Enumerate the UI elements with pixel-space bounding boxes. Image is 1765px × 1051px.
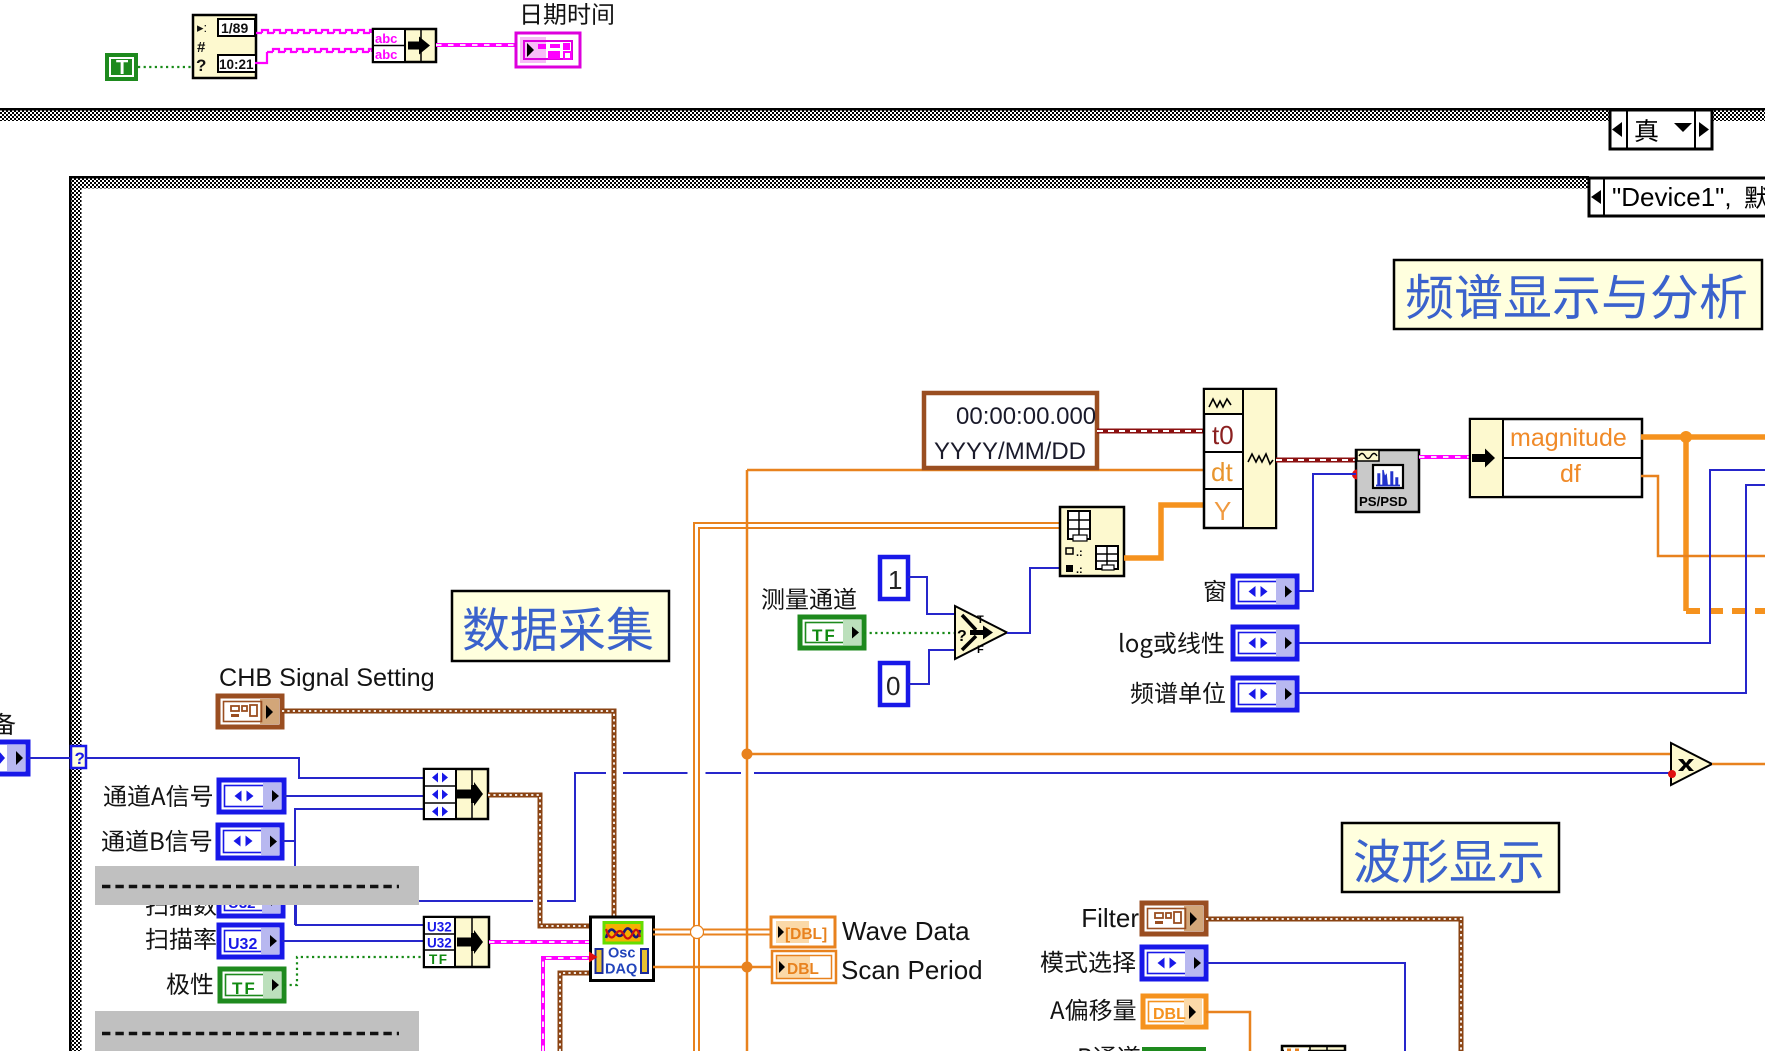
divider bar (upper) [95,866,419,905]
svg-text:TF: TF [429,952,449,967]
svg-text:dt: dt [1211,457,1233,487]
control 扫描数 (hidden by divider) [219,884,283,916]
partial label 设备 [0,713,15,735]
svg-text:DBL: DBL [1153,1006,1186,1023]
control 窗 [1233,576,1297,607]
enum control Filter [1142,903,1206,934]
case selector 真 [1610,110,1712,149]
svg-text:10:21: 10:21 [219,57,254,72]
wire scan period trunk vertical [746,470,749,1051]
wire 通道A信号 to interleave [284,795,424,797]
svg-text:YYYY/MM/DD: YYYY/MM/DD [934,438,1086,465]
svg-text:abc: abc [375,31,397,46]
svg-text:▸:: ▸: [197,20,207,35]
wire 极性 to bundle [284,957,424,985]
label 窗 [1205,580,1225,602]
svg-text:t0: t0 [1212,420,1234,450]
label CHB Signal Setting [219,664,435,692]
control 测量通道 TF [800,617,864,648]
svg-text:Scan Period: Scan Period [841,955,983,985]
label Scan Period [841,955,983,985]
svg-text:"Device1",: "Device1", [1612,182,1739,212]
wire OscDAQ wave data (double orange) [653,930,771,935]
inner structure top border [69,176,1589,189]
wire to multiply (lower blue) [295,771,1669,904]
svg-text:TF: TF [232,979,257,998]
tunnel ? on border [71,746,86,768]
node Format Date/Time String [193,15,256,78]
svg-text:df: df [1560,460,1581,488]
comment box 数据采集 [452,591,669,661]
label 日期时间 [523,3,613,25]
junction scan period [742,962,753,973]
wire string time to concatenate [255,49,372,63]
svg-text:[DBL]: [DBL] [785,926,827,943]
wire magnitude branch dashed right [1686,608,1765,614]
svg-text:?: ? [196,56,206,75]
wire brown from below to OscDAQ [560,973,591,1051]
svg-text:Osc: Osc [608,946,635,962]
indicator Wave Data [DBL] [771,917,835,947]
svg-text:DBL: DBL [787,961,819,978]
divider bar (lower) [95,1011,419,1051]
svg-text:Y: Y [1214,496,1231,526]
wire trunk to multiply [747,753,1671,756]
control 频谱单位 [1233,678,1297,710]
svg-text:TF: TF [812,626,837,645]
wire magnitude branch down [1683,437,1689,611]
wire magenta from below to OscDAQ [543,958,591,1051]
label Wave Data [842,916,970,946]
svg-text:CHB Signal Setting: CHB Signal Setting [219,664,435,692]
case selector label Device1 [1612,182,1765,212]
svg-text:U32: U32 [228,936,257,953]
svg-text:PS/PSD: PS/PSD [1359,494,1407,509]
node build waveform [1204,389,1276,528]
wire OscDAQ scan period [653,966,771,969]
svg-text:.:: .: [1076,564,1083,576]
wire tunnel to interleave node [86,758,424,778]
svg-text:.:: .: [1076,547,1083,559]
label A偏移量 [1050,999,1135,1021]
control 扫描率 U32 [219,925,282,957]
svg-text:U32: U32 [427,936,452,951]
wire 扫描数 to bundle [283,900,424,925]
node index array [1060,507,1124,576]
constant 1 [880,557,908,599]
wire df out [1641,476,1765,556]
svg-text:1: 1 [888,565,902,595]
wire CHB enum to OscDAQ [282,711,614,918]
node concatenate strings [373,29,436,62]
control log或线性 [1233,627,1297,659]
subVI OscDAQ [589,917,654,981]
svg-text:U32: U32 [427,920,452,935]
wire build waveform to PS/PSD [1276,458,1356,463]
wire channel B branch down [294,841,296,925]
label 模式选择 [1041,951,1136,973]
wire timestamp to t0 [1097,429,1204,434]
node bundle [424,917,489,967]
label 极性 [167,973,213,995]
wire trunk to dt [747,469,1204,472]
label 扫描数 (hidden by divider) [146,894,216,916]
node PS/PSD [1352,450,1419,512]
wire 设备 to tunnel [28,757,71,759]
wire magnitude out (thick orange) [1641,434,1765,440]
wire A偏移量 down [1206,1012,1250,1051]
wire waveform array vertical (double orange) [694,523,1060,1051]
wire 频谱单位 out [1297,485,1765,693]
label 测量通道 [762,588,856,610]
string indicator 日期时间 [516,33,580,67]
enum constant CHB Signal Setting [218,696,282,727]
svg-text:Filter: Filter [1081,903,1139,933]
wire boolean T to Format Date/Time [138,66,193,68]
label 通道A信号 [104,785,212,807]
svg-text:T: T [977,614,984,626]
svg-text:magnitude: magnitude [1510,424,1627,452]
wire 通道B信号 to interleave [282,809,424,841]
case selector "Device1" frame [1589,178,1765,216]
case selector label 真 [1635,119,1657,142]
partial control 设备 at left edge [0,742,28,774]
wire string date to concatenate [256,30,372,33]
label 通道B信号 [102,830,211,852]
wire multiply out [1712,763,1765,766]
svg-text:0: 0 [886,671,900,701]
node select [955,606,1007,659]
wire 测量通道 to select [864,632,955,634]
wire string to indicator [436,43,516,47]
label log或线性 [1120,632,1224,658]
partial bundle node (bottom edge) [1282,1046,1345,1051]
control A偏移量 DBL [1143,996,1206,1027]
svg-text:T: T [116,57,128,79]
junction trunk-multiply [742,749,753,760]
node interleave arrays [424,769,488,819]
wire 0 to select [908,650,955,684]
wire interleave to OscDAQ (cluster) [488,795,591,926]
constant timestamp [924,393,1097,468]
control 通道A信号 [219,780,284,812]
boolean constant T (green) [105,53,138,81]
svg-text:1/89: 1/89 [221,20,248,36]
svg-text:F: F [977,644,984,656]
wire log或线性 out [1297,470,1765,643]
wire 窗 to PS/PSD [1297,474,1356,591]
svg-text:#: # [197,39,206,56]
partial control B通道 (bottom edge) [1079,1046,1206,1051]
wire 模式选择 down [1206,963,1405,1051]
svg-text:DAQ: DAQ [605,962,637,978]
node multiply [1668,743,1712,785]
indicator Scan Period DBL [772,951,836,983]
svg-text:00:00:00.000: 00:00:00.000 [956,403,1096,430]
svg-text:abc: abc [375,47,397,62]
inner structure left border [69,179,82,1051]
constant 0 [880,663,908,705]
wire Filter down [1206,919,1461,1051]
wire crossing hop (white circle) [691,926,704,939]
svg-text:Wave Data: Wave Data [842,916,970,946]
wire PS/PSD to unbundle (magenta) [1419,455,1470,459]
svg-text:?: ? [957,628,967,645]
node unbundle magnitude/df [1470,419,1642,497]
wire bundle to OscDAQ (magenta cluster) [489,940,591,944]
control 通道B信号 [218,825,282,858]
wire 扫描率 to bundle [282,940,424,942]
comment box 波形显示 [1342,823,1559,892]
control 模式选择 [1142,947,1206,979]
comment box 频谱显示与分析 [1394,260,1762,329]
control 极性 TF [220,969,284,1001]
label Filter [1081,903,1139,933]
wire select to index array [1007,568,1060,633]
wire 1 to select [908,577,955,614]
label 频谱单位 [1131,682,1225,704]
wire index array to Y [1124,505,1204,558]
outer structure top border [0,108,1765,121]
svg-text:?: ? [75,749,85,768]
label 扫描率 [146,928,216,950]
junction magnitude [1680,431,1692,443]
